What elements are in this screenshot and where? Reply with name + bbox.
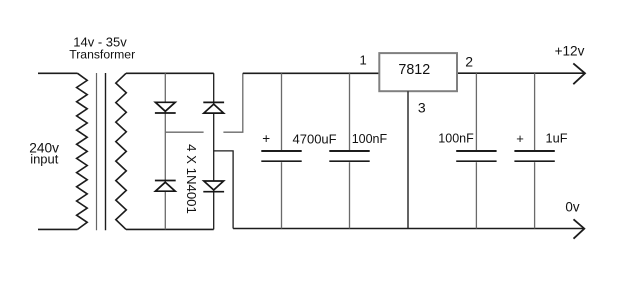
svg-text:input: input <box>30 152 59 167</box>
svg-text:1uF: 1uF <box>546 130 568 145</box>
svg-text:2: 2 <box>465 53 473 69</box>
svg-text:+12v: +12v <box>555 44 585 59</box>
svg-text:4700uF: 4700uF <box>293 131 337 146</box>
svg-text:1: 1 <box>359 53 366 68</box>
svg-text:7812: 7812 <box>398 62 430 78</box>
svg-text:+: + <box>516 131 524 146</box>
svg-text:Transformer: Transformer <box>69 48 135 62</box>
svg-text:+: + <box>262 131 270 146</box>
svg-text:100nF: 100nF <box>352 132 388 146</box>
svg-text:3: 3 <box>418 100 426 116</box>
svg-text:4 X 1N4001: 4 X 1N4001 <box>184 144 199 214</box>
svg-text:100nF: 100nF <box>438 132 474 146</box>
svg-text:0v: 0v <box>565 200 579 215</box>
